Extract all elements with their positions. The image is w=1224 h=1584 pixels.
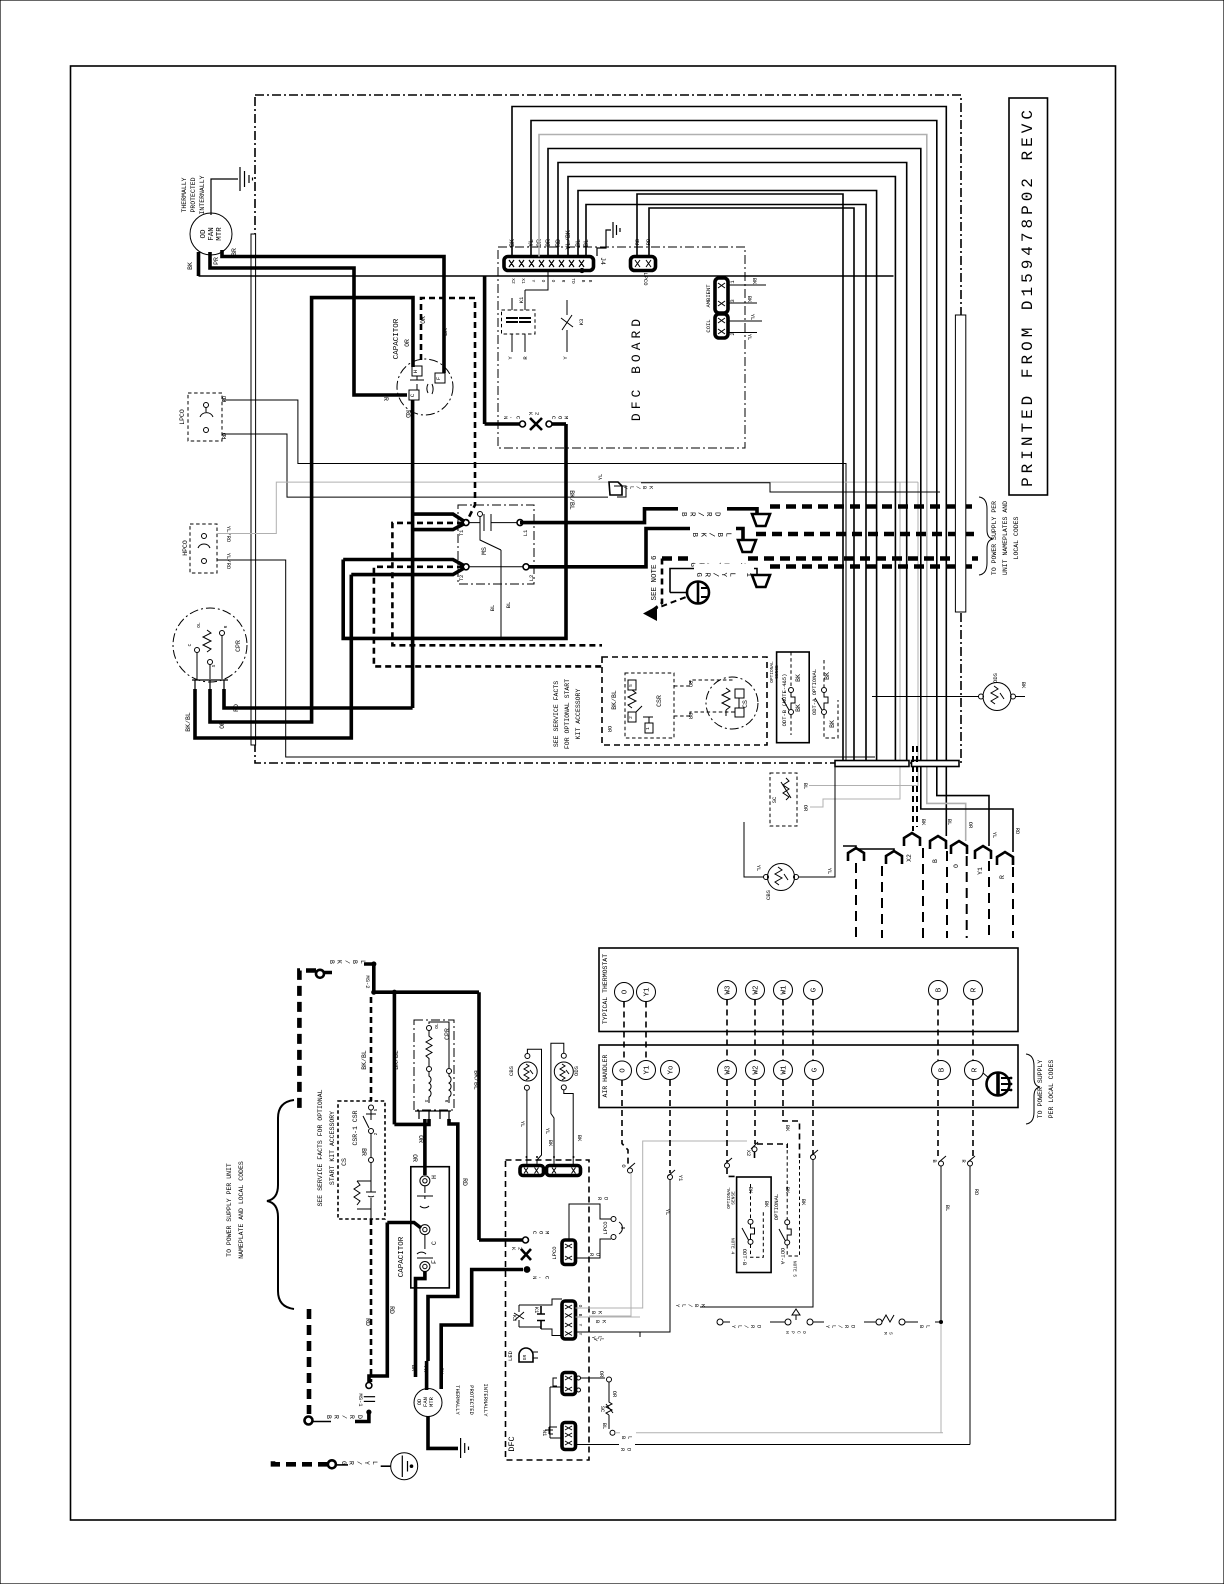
svg-text:COM: COM [531, 1231, 551, 1237]
wire loop C gray [539, 135, 966, 842]
wire dashed W2 drop [754, 1080, 756, 1144]
terminal strip 2 [912, 761, 960, 767]
svg-text:K2: K2 [527, 412, 540, 418]
svg-text:MS: MS [882, 1332, 894, 1338]
svg-text:BK/BL: BK/BL [328, 960, 366, 968]
svg-text:SEE SERVICE FACTS FOR OPTIONAL: SEE SERVICE FACTS FOR OPTIONAL [317, 1089, 324, 1206]
svg-text:CBS: CBS [508, 1065, 515, 1076]
svg-text:O: O [620, 1164, 627, 1168]
svg-text:LOCAL CODES: LOCAL CODES [1013, 516, 1020, 559]
terminal BR/RD field [305, 1417, 313, 1425]
svg-text:2: 2 [373, 1132, 379, 1135]
wire dashed G pair [812, 1000, 814, 1061]
svg-text:LPCO: LPCO [602, 1221, 609, 1235]
svg-text:B: B [939, 1067, 947, 1072]
wire BK drop to K2 [483, 276, 487, 424]
plug YL/BK disconnect [609, 482, 622, 495]
terminal G t [804, 981, 823, 1000]
wire dashed drop O [966, 856, 968, 938]
wire GR/YL 1 [670, 569, 757, 593]
pressure switch LPCO 2 [611, 1217, 616, 1222]
svg-text:K3: K3 [511, 1315, 518, 1322]
svg-text:FOR OPTIONAL START: FOR OPTIONAL START [564, 679, 571, 749]
wire RD LPCO b1 [569, 1204, 611, 1240]
led LED [519, 1348, 533, 1362]
wire loop F [568, 177, 895, 761]
wire BL [500, 567, 502, 637]
svg-text:O: O [540, 280, 546, 283]
wire gray branch O [810, 482, 900, 807]
wire dashed into T2 [374, 567, 602, 667]
wire CSR to CS [674, 680, 735, 716]
svg-text:LED: LED [507, 1350, 514, 1361]
wire BK/BL dashed [756, 532, 978, 537]
svg-text:CPR: CPR [444, 1028, 451, 1040]
svg-text:PER LOCAL CODES: PER LOCAL CODES [1048, 1060, 1055, 1119]
wire loop A [512, 107, 946, 837]
wire dashed R pair [972, 1000, 974, 1061]
relay contact K2 bottom [523, 1237, 529, 1243]
svg-text:5: 5 [373, 1108, 379, 1111]
connector OR plug [562, 1373, 576, 1395]
wire BR motor lead [222, 250, 444, 373]
svg-text:B: B [931, 1159, 938, 1163]
svg-text:MS-1: MS-1 [357, 1393, 364, 1407]
svg-text:BK/BL: BK/BL [611, 690, 618, 710]
svg-text:YL: YL [544, 1128, 551, 1135]
terminal bracket CPR2 [415, 1111, 451, 1119]
wire BL B down [940, 1166, 942, 1322]
svg-text:HPCO: HPCO [784, 1331, 807, 1337]
wire BK ambient 2 [728, 302, 757, 304]
svg-text:RD: RD [596, 1197, 609, 1203]
brace local codes [1026, 1054, 1040, 1124]
svg-text:H: H [412, 370, 419, 373]
terminal BK/BL field [316, 970, 324, 978]
svg-text:BR: BR [231, 248, 238, 256]
svg-text:BL: BL [601, 1423, 608, 1430]
svg-text:Y: Y [507, 356, 514, 360]
svg-text:CS: CS [742, 700, 749, 708]
svg-text:BR: BR [360, 1148, 367, 1156]
connector CBS plug [520, 1166, 544, 1176]
pressure switch HPCO [190, 524, 217, 573]
wire dashed R drop [972, 1080, 974, 1159]
terminal Y1 a [637, 1061, 656, 1080]
wire BK/BL 2 [393, 992, 397, 1124]
wire dashed into T1 [392, 523, 602, 645]
svg-text:AMBIENT: AMBIENT [705, 284, 712, 308]
wire YL CBS right [799, 767, 836, 878]
wire dashed drop R [1012, 867, 1014, 938]
svg-text:OR: OR [606, 726, 613, 733]
svg-text:CAPACITOR: CAPACITOR [393, 318, 401, 359]
svg-text:G: G [811, 987, 819, 992]
wire dashed BR/RD supply [307, 1309, 312, 1414]
svg-text:BK: BK [800, 1199, 807, 1206]
svg-text:Y: Y [577, 1333, 583, 1336]
wire BK/BL 3 [477, 992, 481, 1240]
connector LPCO plug [562, 1240, 576, 1265]
spade Y1 [975, 846, 991, 859]
svg-text:HPCO: HPCO [182, 540, 189, 556]
svg-text:TD: TD [570, 278, 576, 284]
terminal GR/YL field [328, 1460, 336, 1468]
svg-text:OR: OR [420, 316, 427, 324]
sensor ODT-B [777, 652, 810, 743]
relay contact K2 [520, 421, 526, 427]
wire dashed W1 pair [782, 1000, 784, 1061]
wire YL CBS2 b [526, 1090, 528, 1165]
svg-text:NOTE 5: NOTE 5 [792, 1261, 798, 1278]
svg-text:ODT-B: ODT-B [741, 1249, 748, 1266]
svg-text:OR: OR [598, 1371, 605, 1378]
svg-text:ODS: ODS [573, 1065, 580, 1076]
wire RD loop 2 [649, 208, 854, 760]
wire gray O to dfc [589, 1173, 631, 1316]
svg-text:TO POWER SUPPLY PER UNIT: TO POWER SUPPLY PER UNIT [226, 1163, 233, 1257]
note triangle [643, 606, 657, 621]
svg-text:BK: BK [751, 278, 758, 285]
svg-text:OD: OD [200, 229, 208, 239]
wire RD LPCO top [222, 400, 846, 760]
svg-text:1: 1 [729, 280, 736, 284]
svg-text:BK/BL: BK/BL [473, 1070, 480, 1090]
svg-text:C: C [187, 643, 193, 646]
svg-text:PR: PR [213, 257, 220, 265]
terminal W2 t [746, 981, 765, 1000]
svg-text:BL: BL [946, 819, 953, 826]
wire arrow into T2 [343, 560, 464, 575]
svg-text:R: R [443, 1100, 449, 1103]
MS blade [478, 512, 483, 517]
plug BK/BL [738, 540, 756, 552]
svg-text:RD: RD [1014, 828, 1021, 835]
svg-text:1: 1 [645, 727, 651, 730]
svg-text:BL: BL [505, 602, 512, 609]
wire BK2 to K2 NC [441, 1270, 523, 1390]
svg-text:MS-2: MS-2 [364, 975, 371, 988]
svg-text:CSR: CSR [656, 695, 663, 707]
svg-text:MTR: MTR [216, 227, 224, 241]
svg-text:RD: RD [404, 410, 411, 418]
svg-text:TO POWER SUPPLY PER: TO POWER SUPPLY PER [991, 501, 998, 575]
wire dashed W3 pair [726, 1000, 728, 1061]
wire YL CBS2 a [527, 1049, 541, 1165]
terminal W3 a [718, 1061, 737, 1080]
connector J4 [504, 257, 594, 271]
terminal R t [964, 981, 983, 1000]
svg-text:RD: RD [973, 1189, 980, 1196]
svg-text:BK: BK [829, 720, 836, 728]
wire GR/YL dashed [770, 564, 978, 569]
wire dashed drop aux1 [855, 863, 857, 938]
contact T1 [463, 520, 469, 526]
terminal W1 a [774, 1061, 793, 1080]
svg-text:R: R [960, 1159, 967, 1163]
terminal H2 [420, 1176, 430, 1186]
wire dashed B drop [937, 1080, 939, 1159]
svg-text:COIL: COIL [705, 319, 712, 332]
hpco interlock line [717, 1319, 723, 1325]
svg-text:W2: W2 [753, 985, 761, 994]
svg-text:NAMEPLATE AND LOCAL CODES: NAMEPLATE AND LOCAL CODES [238, 1161, 245, 1259]
wire RD R down [969, 1166, 971, 1445]
svg-text:RD: RD [221, 432, 228, 439]
svg-text:B: B [577, 1314, 583, 1317]
svg-text:NOTE 4: NOTE 4 [730, 1238, 736, 1255]
wire BL to B [615, 1432, 943, 1434]
wire BK/BL to bracket [394, 1119, 429, 1124]
svg-text:DFC: DFC [507, 1436, 517, 1451]
svg-text:OR: OR [967, 822, 974, 829]
wire MS-1 to terminal [355, 1414, 369, 1422]
svg-text:PR: PR [382, 393, 389, 401]
svg-text:N.C: N.C [531, 1276, 551, 1282]
svg-text:RD: RD [619, 1448, 632, 1454]
svg-text:BK/BL: BK/BL [185, 712, 192, 732]
capacitor C1 run cap [397, 359, 453, 415]
svg-text:OL: OL [196, 622, 202, 628]
wire GR/YL 2 dashed [662, 556, 688, 561]
air handler box [599, 1045, 1018, 1108]
wire YL K1 [576, 1332, 641, 1337]
wire arrow into T1 [413, 514, 465, 530]
svg-text:YL: YL [664, 1209, 671, 1216]
svg-text:3: 3 [729, 299, 736, 302]
svg-text:BR: BR [410, 1365, 417, 1372]
svg-text:K1: K1 [518, 296, 525, 303]
motor ODF (OD FAN MTR) [190, 213, 232, 255]
wire dashed O pair [623, 1002, 625, 1062]
svg-text:S: S [423, 1100, 429, 1103]
wire dashed Yo drop [669, 1080, 671, 1173]
svg-text:B: B [580, 280, 586, 283]
svg-text:YL/RD: YL/RD [824, 1325, 856, 1331]
svg-text:X2: X2 [906, 854, 913, 862]
svg-text:BK/BL: BK/BL [361, 1050, 368, 1070]
svg-text:OR: OR [611, 1391, 618, 1398]
svg-text:SENSE: SENSE [731, 1191, 737, 1205]
svg-text:5: 5 [628, 684, 634, 687]
svg-text:KIT ACCESSORY: KIT ACCESSORY [575, 689, 582, 740]
svg-text:O: O [577, 1305, 583, 1308]
wire dashed RD from CS [370, 1219, 373, 1382]
svg-text:T1: T1 [458, 529, 465, 536]
relay CSR [625, 673, 674, 738]
spade aux2 [886, 851, 902, 864]
svg-text:ODS: ODS [992, 672, 999, 683]
terminal W1 t [774, 981, 793, 1000]
terminal F [435, 373, 445, 383]
svg-text:C: C [409, 393, 416, 397]
motor ODF2 [414, 1389, 442, 1417]
svg-text:W1: W1 [781, 985, 789, 995]
wire BK motor lead [197, 252, 201, 276]
svg-text:OPTIONAL: OPTIONAL [773, 1194, 780, 1220]
wire T2 feed from K2 [343, 424, 566, 638]
ground G4 [428, 1417, 458, 1449]
svg-text:BK: BK [576, 1135, 583, 1142]
svg-text:CPR: CPR [235, 640, 242, 652]
svg-text:BK/BL: BK/BL [690, 533, 731, 541]
svg-text:Y1: Y1 [644, 987, 652, 997]
contactor MS box [458, 505, 534, 584]
svg-text:RD: RD [588, 1253, 601, 1259]
terminal F2 [420, 1262, 430, 1272]
svg-text:BL: BL [918, 1325, 931, 1331]
wire YL gray HPCO [217, 482, 918, 533]
wire loop G [578, 191, 877, 761]
svg-text:F: F [435, 377, 442, 380]
wire YL Yo to dfc [589, 1180, 670, 1333]
svg-text:ODT-B (NOTE-4&5): ODT-B (NOTE-4&5) [781, 674, 788, 727]
capacitor C2 [411, 1167, 450, 1288]
wire RD from CPR to run cap [224, 400, 413, 708]
wire YL coil 2 [728, 332, 757, 334]
svg-text:YL/RD: YL/RD [730, 1325, 762, 1331]
svg-text:R: R [560, 280, 566, 283]
svg-text:THERMALLY: THERMALLY [181, 177, 188, 212]
svg-text:L1: L1 [522, 529, 529, 536]
wire BK ODS a [551, 1043, 564, 1165]
svg-text:TYPICAL THERMOSTAT: TYPICAL THERMOSTAT [602, 954, 609, 1024]
svg-text:O: O [550, 280, 556, 283]
spade X2 [904, 833, 920, 846]
svg-text:OL: OL [434, 1023, 440, 1029]
svg-text:YL: YL [519, 1121, 526, 1128]
terminal R a [965, 1061, 984, 1080]
wire F2 to BR [416, 1272, 425, 1378]
svg-text:RD: RD [364, 1318, 371, 1326]
svg-text:Yo: Yo [668, 1065, 676, 1075]
svg-text:CSR-1 CSR: CSR-1 CSR [352, 1110, 359, 1145]
sensor ODS [983, 683, 1011, 711]
start kit box CSR [602, 657, 767, 745]
bus bar [955, 315, 965, 612]
wire link connectors [550, 1387, 562, 1438]
svg-text:RD: RD [221, 395, 228, 402]
svg-text:INTERNALLY: INTERNALLY [482, 1383, 489, 1417]
svg-text:YL: YL [826, 868, 833, 875]
svg-text:X2: X2 [510, 278, 516, 284]
brace unit supply [267, 1100, 294, 1309]
svg-text:BK: BK [594, 1320, 607, 1326]
thermostat CBS 2 [518, 1062, 537, 1081]
svg-text:W2: W2 [753, 1065, 761, 1074]
wire BK/BL power [529, 529, 698, 567]
svg-text:OR: OR [219, 721, 226, 729]
svg-text:BK: BK [784, 1125, 791, 1132]
conduit double line [251, 234, 256, 745]
svg-text:ODT-A: ODT-A [779, 1248, 786, 1265]
svg-text:G: G [812, 1067, 820, 1072]
terminal Yo a [661, 1061, 680, 1080]
svg-text:INTERNALLY: INTERNALLY [199, 175, 206, 214]
relay contact K3 2 [514, 1305, 524, 1327]
wire BK/BL from CPR [195, 575, 351, 738]
wire RD to R [576, 1444, 971, 1446]
svg-text:CBS: CBS [765, 889, 772, 900]
svg-text:PROTECTED: PROTECTED [468, 1385, 475, 1415]
switch HPCO 2 [792, 1309, 800, 1320]
svg-text:TO POWER SUPPLY: TO POWER SUPPLY [1037, 1060, 1044, 1119]
sensor ODT-B 2 [737, 1177, 772, 1273]
svg-text:PROTECTED: PROTECTED [190, 177, 197, 212]
svg-text:LPCO: LPCO [642, 272, 649, 286]
svg-text:BK: BK [795, 674, 802, 682]
connector K1 plug [562, 1301, 576, 1339]
wire YL/BK [641, 483, 940, 492]
connector N1 plug [562, 1423, 576, 1450]
svg-text:SEE NOTE 6: SEE NOTE 6 [651, 555, 659, 601]
terminal O t [615, 983, 634, 1002]
svg-text:BL: BL [944, 1205, 951, 1212]
resistor SC 2 [606, 1382, 613, 1429]
svg-text:Y1: Y1 [644, 1065, 652, 1075]
svg-text:N1: N1 [541, 1430, 548, 1437]
svg-text:O: O [953, 864, 960, 868]
svg-text:X1: X1 [520, 278, 526, 284]
svg-text:BL: BL [489, 605, 496, 612]
svg-text:O: O [620, 1068, 628, 1073]
resistor SC [770, 773, 797, 826]
svg-text:B: B [936, 987, 944, 992]
wire dashed MS-2 [370, 997, 373, 1101]
brace power supply [979, 497, 993, 575]
svg-text:YL: YL [597, 474, 604, 481]
svg-text:BK/BL: BK/BL [568, 490, 575, 510]
svg-text:R: R [972, 1067, 980, 1072]
wire loop E [558, 163, 907, 761]
svg-text:RD: RD [461, 1178, 468, 1186]
svg-text:BK: BK [746, 296, 753, 303]
wire dashed W3 drop [726, 1080, 728, 1162]
svg-text:YL: YL [746, 334, 753, 341]
start kit box CSR-1 [338, 1101, 385, 1219]
relay K1 cap [537, 1306, 545, 1329]
svg-text:BL: BL [802, 783, 809, 790]
svg-text:Y: Y [530, 280, 536, 283]
svg-text:BK: BK [763, 1201, 770, 1208]
wire BK/BL to junction [324, 964, 479, 992]
svg-text:CAPACITOR: CAPACITOR [398, 1236, 406, 1277]
svg-text:N.C: N.C [502, 416, 522, 422]
svg-text:W1: W1 [781, 1065, 789, 1075]
MS coil plates [469, 514, 517, 531]
contact L2 [523, 564, 529, 570]
wire PR2 [425, 1361, 429, 1390]
svg-text:R: R [971, 987, 979, 992]
connector AMBIENT [715, 278, 728, 313]
outdoor unit boundary [255, 95, 961, 763]
ground G5 GR/YL [391, 1453, 418, 1480]
relay contact K3 [561, 300, 573, 352]
wire BK run [199, 275, 894, 277]
wire PR motor lead [210, 252, 407, 395]
wire OR to H [423, 1119, 427, 1175]
terminal O a [613, 1061, 632, 1080]
svg-text:B: B [587, 280, 593, 283]
wire YL coil [728, 320, 762, 322]
relay K1 [502, 310, 536, 334]
svg-text:BK: BK [1020, 682, 1027, 689]
wire RD from cap C [369, 1223, 387, 1383]
svg-text:2: 2 [628, 716, 634, 719]
svg-text:BR/RD: BR/RD [679, 512, 720, 520]
terminal strip 1 [835, 761, 909, 767]
svg-text:BK: BK [795, 704, 802, 712]
